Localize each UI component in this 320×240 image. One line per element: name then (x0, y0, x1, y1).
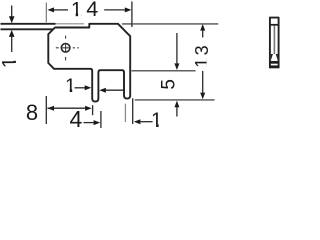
side view bend line (271, 24, 279, 26)
side view lower band 2 (270, 65, 279, 68)
dim leg1 width 1 : right arrow (106, 89, 123, 91)
dim 13 : top extension line (122, 23, 218, 25)
dim 14 : left extension line (45, 3, 47, 23)
svg-text:4: 4 (86, 0, 98, 21)
tab blade top edge (thin gray hidden segment) (56, 23, 85, 25)
dim thickness 1 : up arrow (11, 36, 13, 52)
svg-text:1: 1 (0, 57, 21, 68)
side view lower band 1 (270, 61, 279, 64)
dim 14 : dim line right + arrow (104, 9, 125, 11)
dim 14 : dim line left + arrow (54, 9, 68, 11)
dim 13 : up arrow (202, 31, 204, 38)
font foot masks: make "1" glyphs serif-free (73, 14, 82, 17)
dim 8 : short extension at leg (92, 105, 94, 115)
svg-text:1: 1 (71, 0, 82, 21)
dim 5 : top extension line (132, 70, 196, 72)
dim 4 : arrow to leg centerline (84, 122, 95, 124)
svg-text:5: 5 (159, 79, 180, 90)
dim leg2 width 1 : gray extension line (leg left edge) (124, 104, 126, 122)
dim 8 : dim line with outward arrows (47, 107, 85, 109)
dim 8 : extension line (45, 96, 47, 124)
tab blade bottom edge (1, 28, 54, 30)
svg-text:13: 13 (192, 43, 212, 68)
svg-text:8: 8 (26, 100, 38, 125)
hole centerline horizontal (56, 47, 79, 49)
side view taper left (271, 54, 273, 61)
hole centerline vertical (65, 36, 67, 61)
body outline front view (48, 24, 130, 102)
dim leg2 width 1 : left arrow (140, 121, 152, 123)
side view outer rectangle (270, 18, 279, 69)
hole (61, 44, 70, 53)
dim 4 : extension line (leg center) (100, 111, 102, 128)
legs bottom extension line (135, 99, 215, 101)
dim 5 : up arrow (176, 107, 178, 117)
svg-text:1: 1 (65, 75, 76, 97)
dim leg1 width 1 : left arrow (75, 87, 86, 89)
tab blade top edge (dark segment) (1, 23, 56, 25)
dim 14 : right extension line (131, 2, 133, 28)
side view blade edge (gray) (273, 26, 275, 55)
svg-text:4: 4 (70, 106, 83, 128)
dim 13 : down arrow (202, 71, 204, 93)
dim leg2 width 1 : extension line (leg right edge) (132, 98, 134, 124)
dim thickness 1 : down arrow (11, 6, 13, 18)
dim 5 : down arrow (176, 33, 178, 63)
side view taper right (276, 54, 278, 61)
